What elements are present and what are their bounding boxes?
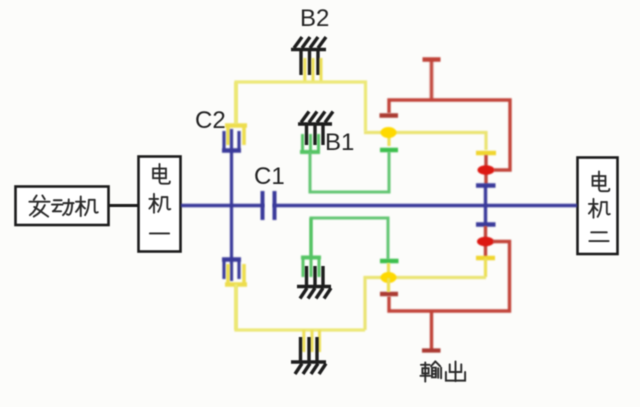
- node sun gear upper (yellow): [381, 127, 397, 138]
- motor1 box 电机一: [139, 157, 181, 252]
- yellow tick upper-right: [476, 151, 496, 156]
- red stem node lower-right: [484, 226, 487, 257]
- capacitor C1 plates: [263, 191, 275, 220]
- brake B2 ground bar: [291, 37, 326, 50]
- shaft through C2 clutches vertical blue wire: [230, 150, 233, 260]
- brake B1' lower ground bar: [297, 287, 331, 299]
- capacitor C1 gap mask: [265, 202, 273, 210]
- yellow stem above node lower: [387, 263, 390, 277]
- yellow wire lower mid: [365, 278, 486, 331]
- svg-text:B2: B2: [300, 5, 329, 32]
- blue stem to main shaft upper-right: [484, 186, 487, 225]
- svg-text:C1: C1: [254, 163, 285, 190]
- brake B2' bottom black prongs: [301, 337, 318, 362]
- red tick lower-left: [380, 292, 398, 296]
- mid yellow wire to right: [364, 133, 486, 151]
- brake B1' lower black prongs: [307, 266, 324, 286]
- wire engine to motor1: [108, 204, 139, 207]
- yellow stem below lower node: [387, 278, 390, 292]
- yellow stem below node: [387, 132, 390, 146]
- red lower rail wire: [389, 242, 510, 312]
- red stem node upper-right: [484, 155, 487, 184]
- main shaft blue wire: [181, 204, 577, 208]
- engine box 发动机: [16, 187, 109, 226]
- blue tick lower-right: [476, 222, 496, 226]
- clutch C2 upper blue fork: [222, 129, 241, 151]
- clutch C2 lower blue fork: [222, 260, 241, 282]
- node carrier upper (red): [478, 165, 495, 175]
- node sun gear lower (yellow): [381, 272, 397, 283]
- brake B2' bottom ground bar: [291, 362, 326, 374]
- red T top (input to ring): [423, 60, 441, 101]
- svg-text:C2: C2: [195, 107, 226, 134]
- brake B1 green fork: [300, 134, 320, 152]
- clutch C2 upper yellow fork: [225, 82, 247, 145]
- top yellow bus wire: [236, 82, 366, 131]
- red tick upper-left: [380, 113, 399, 117]
- brake B2 yellow teeth: [305, 58, 321, 82]
- brake B1' lower green fork: [301, 218, 321, 277]
- yellow stem lower-right: [484, 258, 487, 277]
- motor2 box 电机二: [578, 158, 618, 255]
- brake B2' bottom yellow teeth: [304, 330, 320, 352]
- node carrier lower (red): [477, 237, 494, 247]
- blue tick upper-right: [476, 183, 496, 187]
- label 输出: [420, 361, 441, 381]
- yellow tick lower-right: [476, 256, 495, 261]
- ring gear tick lower (green): [380, 259, 399, 263]
- ring gear tick upper (green): [380, 148, 398, 152]
- bottom yellow bus wire: [236, 284, 365, 330]
- clutch C2 lower yellow fork: [225, 264, 247, 330]
- red output tick: [422, 348, 441, 352]
- brake B1 ground bar: [298, 112, 333, 125]
- brake B2 black prongs: [301, 50, 318, 75]
- green wire B1 to ring (upper): [310, 152, 389, 192]
- red top rail wire: [389, 100, 510, 170]
- svg-text:B1: B1: [325, 129, 354, 156]
- brake B1 black prongs: [307, 124, 324, 145]
- red output stem: [430, 311, 433, 350]
- green wire lower: [311, 218, 388, 259]
